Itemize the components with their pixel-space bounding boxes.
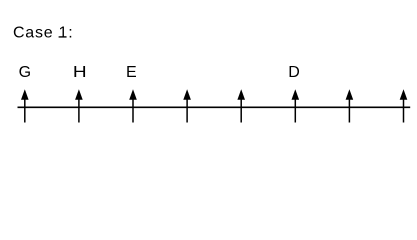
arrow 8 bbox=[400, 89, 408, 122]
svg-text:H: H bbox=[73, 62, 87, 80]
arrow 7 bbox=[346, 89, 354, 122]
svg-text:G: G bbox=[19, 64, 31, 81]
arrow 3 bbox=[129, 89, 137, 122]
svg-text:D: D bbox=[288, 64, 300, 81]
number line diagram bbox=[0, 0, 417, 138]
foot serif of digit 1 bbox=[59, 36, 67, 37]
arrow 1 bbox=[21, 89, 29, 122]
arrow 6 bbox=[292, 89, 300, 122]
arrow 5 bbox=[237, 89, 245, 122]
svg-text:E: E bbox=[126, 64, 137, 81]
arrow 2 bbox=[75, 89, 83, 122]
arrow 4 bbox=[183, 89, 191, 122]
baseline (horizontal number line) bbox=[18, 106, 411, 108]
svg-text:Case 1:: Case 1: bbox=[13, 25, 73, 42]
